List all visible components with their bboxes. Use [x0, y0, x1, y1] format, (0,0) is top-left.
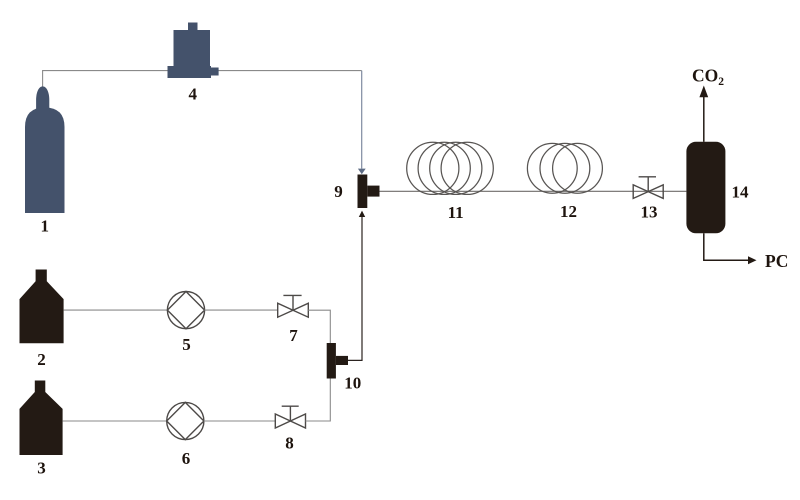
svg-text:PC: PC	[765, 251, 788, 271]
valve 7	[278, 295, 309, 317]
tee mixer 10 nub	[336, 356, 348, 365]
wire pump 6 to valve 8	[204, 420, 275, 422]
wire from cylinder 1 up and right to regulator 4 and node above tee 9	[43, 71, 362, 87]
tee mixer 10 body	[327, 343, 336, 379]
svg-text:5: 5	[182, 335, 191, 354]
arrowhead up CO2	[699, 86, 708, 98]
svg-text:6: 6	[182, 449, 191, 468]
cylinder 1 valve dome	[36, 86, 49, 113]
separator column 14	[686, 142, 725, 234]
arrowhead down into tee 9	[358, 169, 366, 175]
svg-text:10: 10	[344, 374, 361, 393]
valve 8	[275, 406, 305, 428]
svg-text:14: 14	[732, 183, 750, 202]
wire tee 10 to tee 9 with up arrow	[348, 216, 362, 361]
PC outlet line from separator 14 bottom	[704, 233, 748, 260]
arrowhead right PC	[748, 256, 757, 264]
wire pump 5 to valve 7	[205, 309, 278, 311]
pump 5 circle	[167, 292, 204, 329]
gas cylinder 1	[25, 108, 65, 214]
wire valve 8 to tee 10 (up)	[306, 379, 331, 422]
regulator 4 base	[168, 66, 212, 78]
svg-text:11: 11	[448, 203, 464, 222]
valve 13	[633, 177, 663, 199]
svg-text:12: 12	[560, 202, 577, 221]
pump 5 diamond	[167, 292, 204, 329]
coil 11	[407, 142, 494, 194]
CO2 vent line up from separator 14	[703, 96, 705, 142]
regulator 4 top knob	[188, 23, 198, 32]
tee mixer 9 body	[358, 175, 368, 209]
wire bottle 3 to pump 6	[63, 420, 167, 422]
wire bottle 2 to pump 5	[64, 309, 168, 311]
solvent bottle 3	[20, 381, 63, 456]
svg-text:8: 8	[285, 434, 294, 453]
svg-text:4: 4	[189, 85, 198, 104]
regulator 4 body	[174, 30, 211, 67]
wire: vertical drop from regulator line down to tee 9 (slate)	[361, 71, 363, 169]
svg-text:7: 7	[289, 326, 298, 345]
svg-text:13: 13	[641, 203, 658, 222]
tee mixer 9 nub	[367, 186, 379, 197]
svg-text:9: 9	[334, 182, 343, 201]
main line tee 9 to separator 14	[380, 190, 687, 192]
svg-text:1: 1	[41, 217, 50, 236]
coil 12	[527, 143, 602, 193]
arrowhead up into tee 9	[359, 211, 365, 217]
solvent bottle 2	[20, 270, 64, 344]
regulator 4 right tab	[211, 68, 219, 76]
pump 6 diamond	[167, 402, 204, 439]
svg-text:3: 3	[37, 459, 46, 478]
wire valve 7 to tee 10 (down)	[308, 310, 330, 343]
svg-text:2: 2	[37, 350, 46, 369]
pump 6 circle	[167, 402, 204, 439]
